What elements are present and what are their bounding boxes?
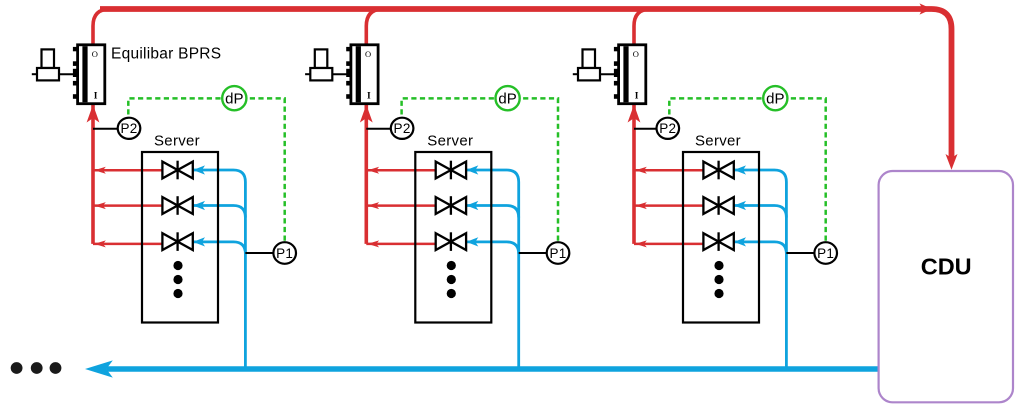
wire: red hot-return top manifold to CDU [100,9,952,158]
svg-text:Equilibar BPRS: Equilibar BPRS [111,46,221,63]
ellipsis dots inside server 2 [447,261,456,298]
arrowhead: red arrow into return riser (group 1, row 3) [94,240,106,247]
wire: blue supply branch to server 2 valve 3 [466,242,518,254]
valve (server 3, row 2) [703,196,733,215]
arrowhead: blue arrow into valve (group 3, row 3) [734,237,746,246]
Equilibar BPRS regulator body 2 [351,45,378,104]
svg-text:I: I [94,92,98,102]
BPRS 1 mounting tabs [73,47,78,99]
arrowhead: blue arrow into valve (group 1, row 3) [193,237,205,246]
wire: red return branch from server 1 valve 3 [93,243,162,246]
wire: blue supply branch to server 2 valve 2 [466,206,518,218]
sensor dP (group 1) [222,86,246,110]
svg-text:P2: P2 [659,121,676,136]
svg-text:dP: dP [498,90,516,107]
wire: red return branch from server 3 valve 2 [634,204,703,207]
wire: red return riser below BPRS 3 (server group 3) [632,102,636,244]
CDU coolant distribution unit [879,171,1013,402]
wire: red riser from BPRS 3 outlet up to top manifold [634,9,651,46]
wire: blue cold-supply bottom main line from CDU [107,366,880,372]
svg-text:O: O [633,49,639,59]
valve (server 2, row 1) [436,161,466,180]
wire: blue supply branch to server 1 valve 3 [193,242,245,254]
svg-text:dP: dP [766,90,784,107]
sensor P1 (group 3) [814,242,837,264]
valve (server 2, row 2) [436,196,466,215]
wire: black tap line from blue riser to P1 sensor (group 1) [245,252,276,254]
Equilibar BPRS regulator body 3 [619,45,646,104]
svg-text:Server: Server [154,133,200,150]
arrowhead: blue arrow into valve (group 3, row 2) [734,201,746,210]
wire: red return riser below BPRS 1 (server group 1) [91,102,95,244]
sensor P2 (group 3) [657,118,680,139]
wire: red return branch from server 2 valve 2 [366,204,435,207]
svg-text:P1: P1 [549,246,566,261]
arrowhead: blue arrow into valve (group 1, row 1) [193,165,205,174]
svg-text:P1: P1 [817,246,834,261]
svg-text:P2: P2 [120,121,137,136]
arrowhead: red arrow into return riser (group 1, row 1) [94,167,106,174]
arrowhead: red arrow up into BPRS 3 inlet [628,105,641,123]
wire: red return branch from server 1 valve 1 [93,169,162,172]
wire: red return branch from server 3 valve 1 [634,169,703,172]
wire: red riser from BPRS 2 outlet up to top manifold [366,9,383,46]
svg-text:dP: dP [225,90,243,107]
arrowhead: red arrow up into BPRS 2 inlet [360,105,373,123]
arrowhead: red arrow into return riser (group 2, row 1) [368,167,380,174]
svg-text:Server: Server [695,133,741,150]
arrowhead: blue arrow into valve (group 2, row 1) [466,165,478,174]
valve (server 3, row 3) [703,232,733,251]
wire: blue supply riser + top branch (server group 2) [466,170,518,371]
BPRS 3 mounting tabs [614,47,619,99]
wire: red return branch from server 1 valve 2 [93,204,162,207]
wire: blue supply branch to server 3 valve 3 [734,242,786,254]
svg-text:P1: P1 [276,246,293,261]
wire: blue supply branch to server 3 valve 2 [734,206,786,218]
server box 3 [683,152,759,323]
wire: black tap line from red riser to P2 sensor (group 1) [93,128,120,130]
arrowhead: red arrow into return riser (group 2, row 2) [368,202,380,209]
svg-text:Server: Server [427,133,473,150]
BPRS 2 mounting tabs [346,47,351,99]
svg-text:O: O [92,49,98,59]
arrowhead: red inlet arrow into CDU top [946,154,958,170]
wire: red return branch from server 2 valve 1 [366,169,435,172]
wire: green dashed dP sense line P2-dP-P1 (group 2) [402,98,558,242]
arrowhead: red arrow up into BPRS 1 inlet [87,105,100,123]
arrowhead: red arrow into return riser (group 3, row 1) [635,167,647,174]
arrowhead: red arrow into return riser (group 1, row 2) [94,202,106,209]
wire: red return branch from server 2 valve 3 [366,243,435,246]
wire: green dashed dP sense line P2-dP-P1 (group 3) [669,98,825,242]
wire: blue supply branch to server 1 valve 2 [193,206,245,218]
server box 2 [415,152,491,323]
wire: black tap line from red riser to P2 sensor (group 2) [366,128,393,130]
sensor P2 (group 2) [391,118,414,139]
wire: black tap line from red riser to P2 sensor (group 3) [634,128,661,130]
pilot regulator on BPRS 3 [573,49,619,80]
svg-text:O: O [365,49,371,59]
server box 1 [142,152,218,323]
Equilibar BPRS regulator body 1 [78,45,105,104]
valve (server 1, row 3) [162,232,192,251]
valve (server 1, row 1) [162,161,192,180]
wire: red return riser below BPRS 2 (server group 2) [364,102,368,244]
ellipsis dots inside server 1 [173,261,182,298]
ellipsis dots: more server groups (bottom left) [11,362,62,374]
sensor P1 (group 1) [273,242,296,264]
arrowhead: red flow arrow on top manifold [920,3,933,14]
wire: blue supply riser + top branch (server group 1) [193,170,245,371]
arrowhead: blue arrow into valve (group 1, row 2) [193,201,205,210]
ellipsis dots inside server 3 [714,261,723,298]
wire: blue supply riser + top branch (server group 3) [734,170,786,371]
svg-text:I: I [635,92,639,102]
wire: black tap line from blue riser to P1 sensor (group 2) [519,252,550,254]
svg-text:P2: P2 [394,121,411,136]
sensor dP (group 2) [496,86,520,110]
valve (server 3, row 1) [703,161,733,180]
sensor dP (group 3) [763,86,787,110]
arrowhead: blue arrow into valve (group 2, row 3) [466,237,478,246]
arrowhead: red arrow into return riser (group 3, row 2) [635,202,647,209]
arrowhead: red arrow into return riser (group 3, row 3) [635,240,647,247]
wire: red riser from BPRS 1 outlet up to top manifold [93,9,110,46]
arrowhead: blue supply arrow to further racks (bottom left) [85,360,113,377]
sensor P2 (group 1) [118,118,141,139]
wire: black tap line from blue riser to P1 sensor (group 3) [786,252,817,254]
pilot regulator on BPRS 2 [305,49,351,80]
arrowhead: red arrow into return riser (group 2, row 3) [368,240,380,247]
sensor P1 (group 2) [547,242,570,264]
arrowhead: blue arrow into valve (group 3, row 1) [734,165,746,174]
svg-text:CDU: CDU [921,254,972,280]
arrowhead: blue arrow into valve (group 2, row 2) [466,201,478,210]
wire: red return branch from server 3 valve 3 [634,243,703,246]
pilot regulator on BPRS 1 [32,49,78,80]
svg-text:I: I [367,92,371,102]
valve (server 1, row 2) [162,196,192,215]
valve (server 2, row 3) [436,232,466,251]
wire: green dashed dP sense line P2-dP-P1 (group 1) [128,98,284,242]
